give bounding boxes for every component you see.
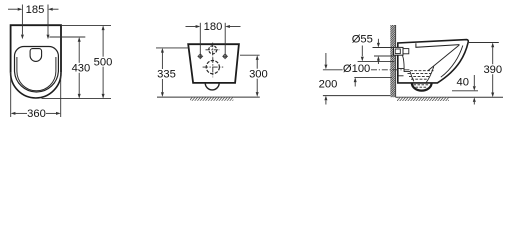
- side view seat seam line: [416, 43, 460, 47]
- side view outlet step: [398, 68, 410, 71]
- dimension Ø100 bottom line: [354, 76, 392, 78]
- side view water dash rows: [408, 71, 434, 80]
- side view bowl opening diagonal: [428, 45, 459, 71]
- side view toilet outline: [398, 40, 469, 83]
- dimension 390 vertical line: [492, 47, 494, 93]
- svg-text:185: 185: [26, 4, 45, 16]
- front view right fixing hole: [223, 55, 226, 58]
- side view inner front line: [441, 46, 463, 78]
- dimension Ø100 arrows: [361, 46, 363, 57]
- dimension 430 top extension line: [49, 37, 85, 99]
- dimension 335 label: [157, 69, 177, 81]
- dimension Ø55 bottom line: [374, 55, 394, 57]
- svg-text:300: 300: [249, 68, 268, 80]
- dimension 180 right arrow: [230, 26, 241, 28]
- front view top small circle: [206, 43, 220, 58]
- front view ground line: [157, 96, 260, 98]
- dimension 300 vertical line: [256, 60, 258, 93]
- side view bowl back curve: [403, 56, 405, 69]
- side view floor line left of wall: [323, 95, 390, 97]
- svg-text:430: 430: [72, 63, 91, 75]
- svg-text:Ø55: Ø55: [352, 34, 373, 46]
- plan seat outline: [15, 47, 59, 93]
- dimension 200 vertical line with arrows: [324, 53, 327, 105]
- dimension Ø55 arrows: [377, 39, 379, 43]
- svg-text:200: 200: [319, 79, 338, 91]
- dimension 180 extension lines: [186, 23, 241, 57]
- svg-text:40: 40: [456, 77, 468, 89]
- dimension 300 top extension line: [240, 55, 260, 97]
- dimension 430 vertical line: [78, 42, 80, 95]
- view 1 bottom baseline extension: [42, 98, 112, 100]
- plan flush opening (small rounded shield): [30, 49, 41, 62]
- dimension 185 right arrow: [53, 8, 59, 10]
- dimension 40 top line: [452, 75, 478, 105]
- wall hatch strip: [390, 25, 395, 97]
- side view inlet box inner: [395, 49, 400, 54]
- front view trap semicircle: [205, 83, 219, 90]
- side view outlet lower edge: [398, 75, 404, 77]
- dimension 500 label: [94, 56, 113, 68]
- front view left fixing hole: [198, 54, 228, 60]
- side view trap bulge: [412, 83, 432, 91]
- side view ground hatch: [397, 98, 449, 101]
- dimension 335 vertical line: [161, 52, 163, 92]
- front view ground hatch: [190, 98, 233, 101]
- dimension 390 label: [483, 64, 503, 76]
- dimension 500 top extension line: [42, 25, 112, 98]
- svg-text:500: 500: [94, 56, 113, 68]
- svg-text:390: 390: [483, 64, 502, 76]
- side view ground line: [396, 96, 503, 98]
- side view inlet elbow stub: [403, 49, 409, 54]
- dimension 185 left arrow: [8, 8, 18, 10]
- dimension 40 arrows: [473, 75, 475, 86]
- dimension Ø100 top line: [354, 46, 395, 87]
- dimension 335 top extension line: [156, 48, 189, 97]
- side view trap water dashes: [414, 85, 430, 87]
- side view inlet box outer: [394, 47, 404, 55]
- dimension Ø100 label: [343, 63, 371, 75]
- dimension 390 top extension line: [468, 43, 499, 98]
- dimension 180 left arrow: [186, 26, 196, 28]
- wall face line: [395, 25, 397, 97]
- plan outer bowl semicircle: [11, 73, 61, 98]
- dimension 300 label: [248, 68, 268, 80]
- plan outer body rectangle (tank area): [11, 25, 61, 98]
- front view drain circle: [203, 57, 224, 77]
- plan seat inner rim line: [17, 57, 56, 91]
- side view bowl cup right wall: [426, 67, 434, 83]
- dimension 185 extension line left with down arrow: [8, 5, 59, 40]
- dimension 430 label: [72, 63, 91, 75]
- side view bowl cup left wall: [410, 72, 414, 82]
- side view outlet centerline: [323, 69, 343, 71]
- dimension Ø55 top line: [373, 39, 394, 64]
- svg-text:360: 360: [27, 108, 46, 120]
- svg-text:335: 335: [157, 69, 176, 81]
- dimension 185 extension line right with down arrow: [47, 5, 49, 35]
- svg-text:Ø100: Ø100: [343, 63, 370, 75]
- dimension 360 extension lines: [11, 73, 61, 117]
- svg-text:180: 180: [204, 21, 223, 33]
- dimension 360 arrows: [15, 112, 27, 114]
- front view body trapezoid: [188, 44, 239, 83]
- dimension 500 vertical line: [102, 30, 104, 94]
